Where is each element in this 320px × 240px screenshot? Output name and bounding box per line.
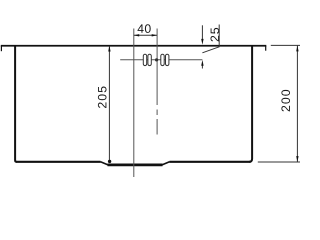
overflow slot 2 (148, 54, 151, 65)
left basin wall (15, 46, 17, 162)
drain recess left ramp (101, 162, 109, 165)
dimension 40 left arrow (134, 34, 139, 36)
basin bottom right segment (170, 161, 251, 163)
dimension 200 line (296, 46, 298, 162)
right rim tick (265, 46, 267, 51)
dimension 25 upper arrow (201, 39, 203, 45)
left rim tick (0, 46, 2, 52)
dimension 200 bottom arrow (296, 156, 298, 162)
overflow slot 4 (166, 54, 169, 65)
dimension 200 text (281, 90, 290, 111)
sink vertical centerline (133, 29, 135, 178)
overflow-hole vertical centerline (dash-dot below slots) (156, 29, 158, 106)
dimension 205 top arrow (108, 46, 110, 52)
dimension 25 leader (202, 25, 219, 53)
dimension 200 bottom extension line (258, 161, 300, 163)
dimension 200 top arrow (296, 46, 298, 52)
dimension 40 line (134, 34, 157, 36)
dimension 25 lower arrow (201, 60, 203, 66)
right basin wall (249, 46, 252, 162)
dimension 205 line (108, 46, 110, 161)
dimension 25 upper arrow shaft (201, 25, 203, 40)
dimension 25 text (210, 28, 219, 41)
dimension 205 bottom dot (108, 160, 111, 163)
drain recess channel (108, 163, 163, 166)
slot group center dot (155, 58, 158, 61)
drain recess right ramp (162, 162, 170, 165)
dimension 200 top extension line (271, 44, 300, 46)
sink top rim line (1, 45, 267, 47)
dimension 40 right arrow (152, 34, 157, 36)
overflow slot 1 (143, 54, 146, 65)
overflow-hole horizontal centerline (120, 59, 202, 61)
dimension 25 lower arrow shaft (201, 66, 203, 69)
overflow slot 3 (161, 54, 164, 65)
dimension 205 text (98, 87, 107, 108)
basin bottom left segment (16, 161, 101, 163)
dimension 40 text (137, 24, 150, 33)
